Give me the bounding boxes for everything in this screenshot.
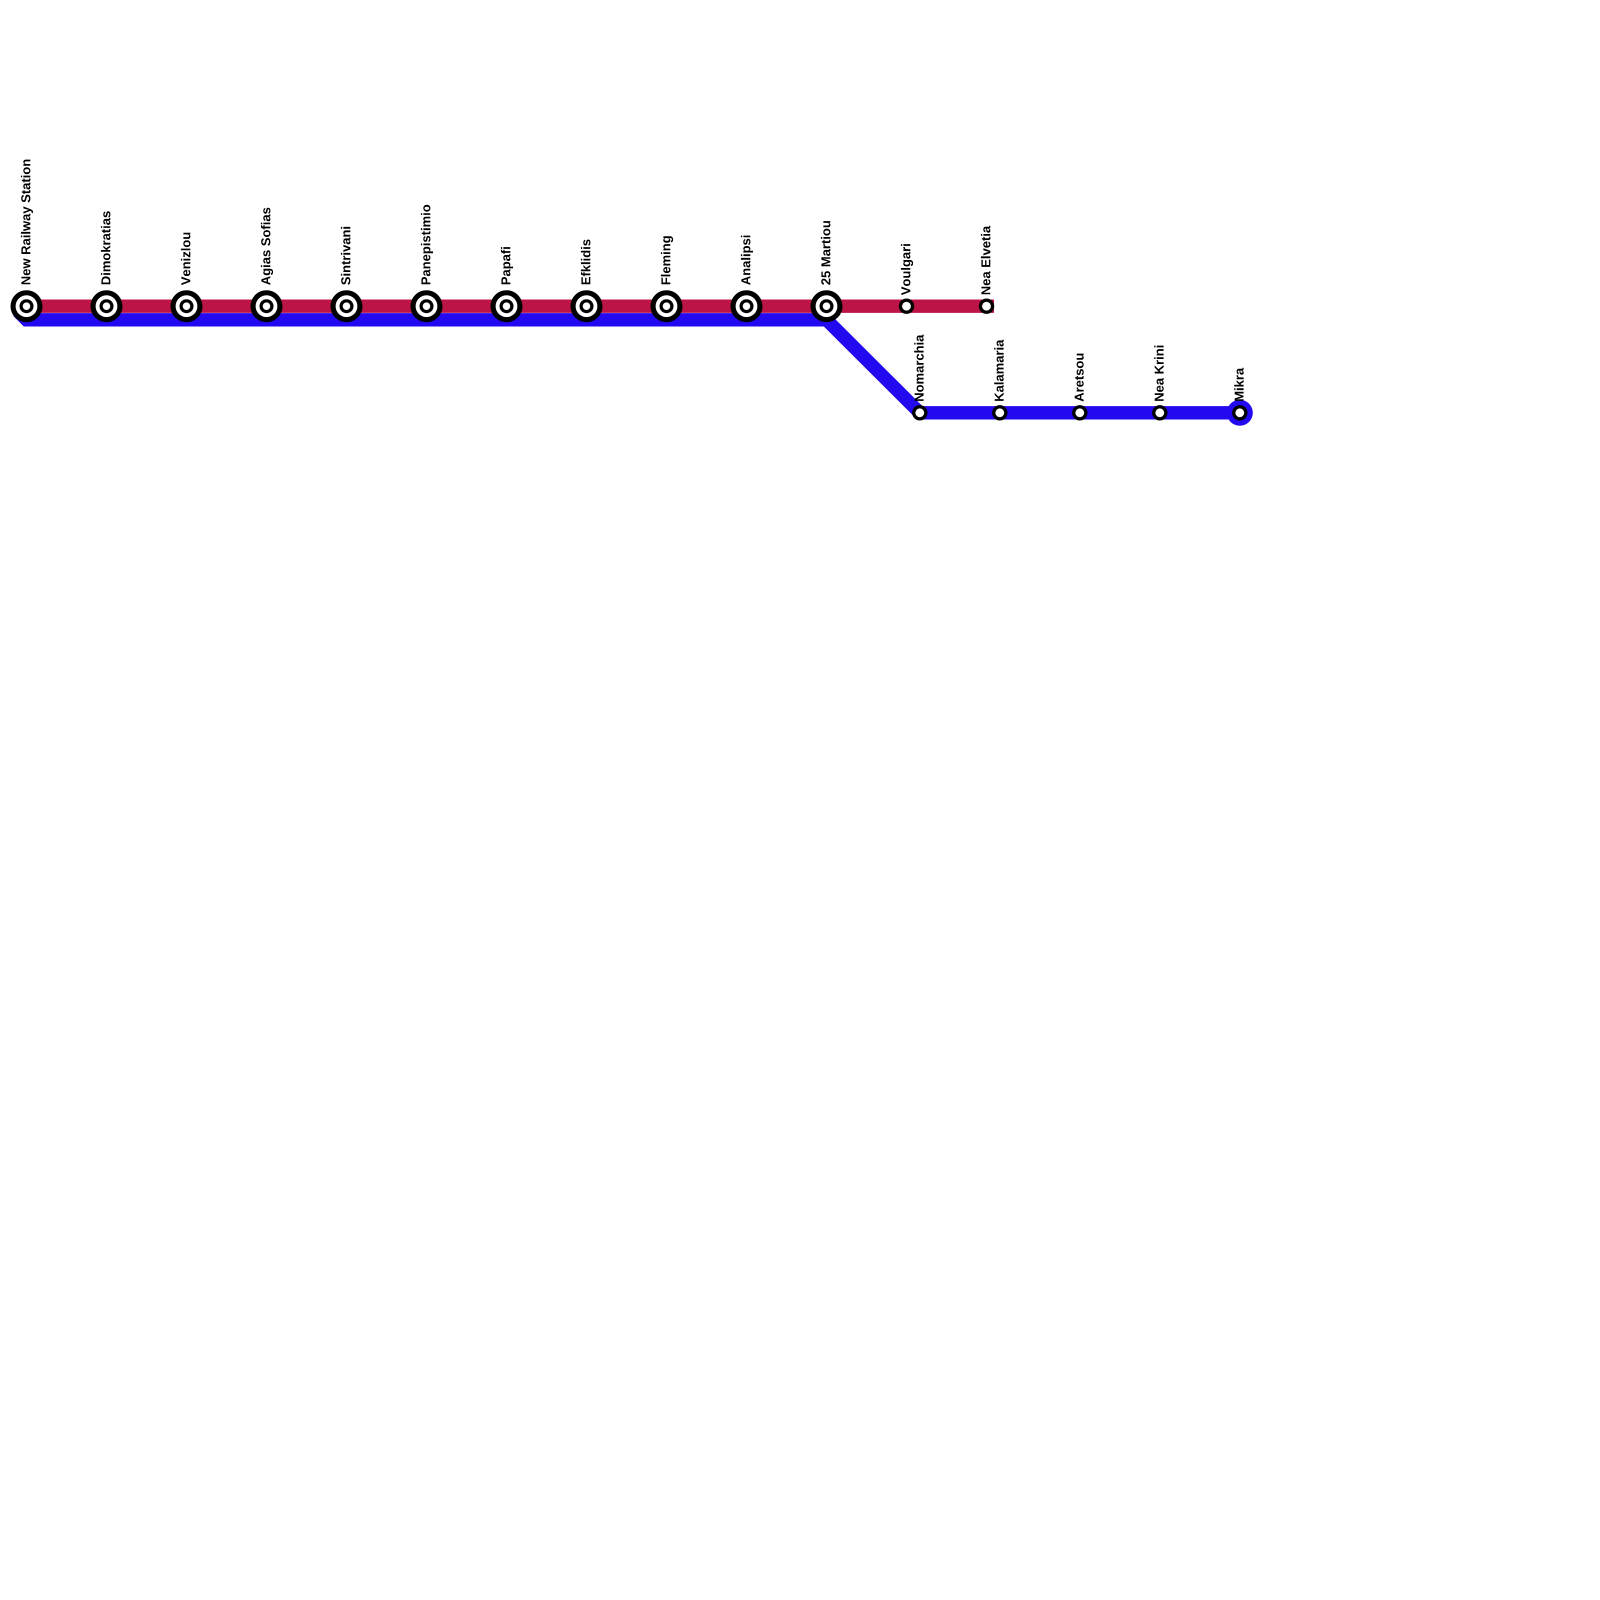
label Dimokratias	[101, 211, 111, 284]
station Mikra	[1232, 405, 1247, 420]
red line (trunk to Nea Elvetia)	[13, 300, 994, 313]
label Voulgari	[901, 244, 913, 295]
station Aretsou	[1072, 405, 1087, 420]
station Nomarchia	[912, 405, 927, 420]
label Panepistimio	[421, 205, 433, 285]
label Analipsi	[741, 236, 753, 285]
label New Railway Station	[21, 160, 33, 285]
label Fleming	[661, 236, 673, 284]
station 25 Martiou	[811, 290, 843, 322]
station Sintrivani	[331, 290, 363, 322]
station Analipsi	[731, 290, 763, 322]
station Dimokratias	[91, 290, 123, 322]
label Sintrivani	[341, 227, 351, 285]
label Nea Elvetia	[981, 226, 991, 295]
label Papafi	[501, 247, 513, 284]
station Kalamaria	[992, 405, 1007, 420]
station Venizlou	[171, 290, 203, 322]
station Voulgari	[899, 299, 914, 314]
label Nomarchia	[914, 335, 924, 401]
station Agias Sofias	[251, 290, 283, 322]
label 25 Martiou	[821, 221, 831, 285]
station Nea Krini	[1152, 405, 1167, 420]
station Fleming	[651, 290, 683, 322]
label Aretsou	[1075, 354, 1084, 402]
station Efklidis	[571, 290, 603, 322]
label Venizlou	[181, 233, 191, 286]
station Nea Elvetia	[979, 299, 994, 314]
station Panepistimio	[411, 290, 443, 322]
label Efklidis	[581, 240, 591, 285]
label Nea Krini	[1154, 346, 1164, 401]
blue line (branch to Mikra)	[18, 311, 1241, 413]
station Papafi	[491, 290, 523, 322]
station New Railway Station	[11, 290, 43, 322]
label Mikra	[1234, 368, 1244, 401]
label Agias Sofias	[261, 208, 273, 285]
label Kalamaria	[994, 340, 1004, 401]
terminus disc Mikra	[1227, 400, 1253, 426]
